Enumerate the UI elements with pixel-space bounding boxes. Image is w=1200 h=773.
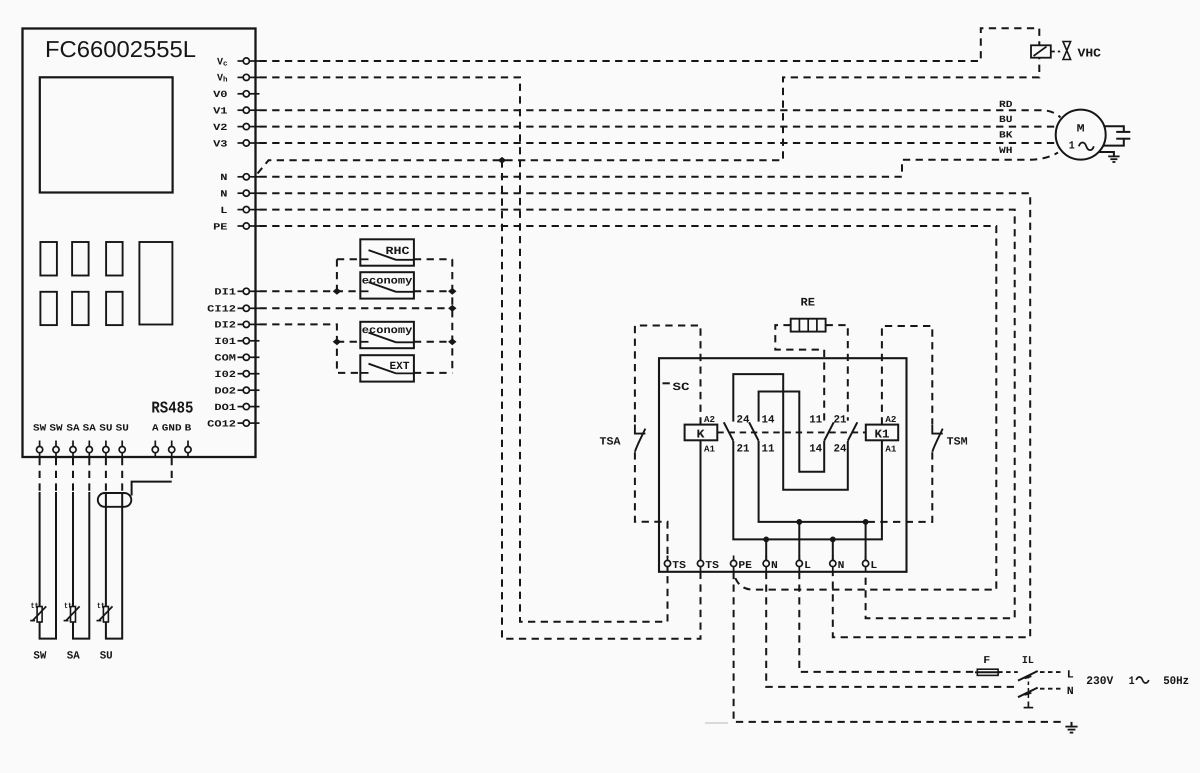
svg-text:TS: TS	[705, 560, 719, 572]
svg-text:N: N	[220, 172, 228, 183]
ground symbol (motor)	[1108, 155, 1119, 157]
display window	[40, 77, 173, 192]
button key 6 (bottom row)	[106, 292, 123, 325]
switch contact inside economy	[360, 341, 368, 343]
svg-text:I01: I01	[214, 336, 236, 347]
svg-text:24: 24	[737, 415, 750, 427]
wire EXT row right (dashed)	[414, 372, 452, 374]
wire DI2 row + left rail (dashed)	[260, 324, 361, 373]
svg-text:SU: SU	[100, 651, 113, 663]
svg-text:TS: TS	[672, 560, 686, 572]
switch box economy (y=272.2)	[360, 272, 414, 298]
svg-text:WH: WH	[999, 145, 1013, 156]
svg-text:L: L	[870, 560, 877, 572]
svg-text:PE: PE	[738, 560, 752, 572]
svg-text:SW: SW	[33, 651, 46, 663]
button key 2 (top row)	[72, 242, 89, 276]
wire V3 to motor BK (dashed)	[260, 142, 1058, 144]
SC enclosure box	[659, 358, 907, 572]
svg-text:RHC: RHC	[386, 246, 410, 258]
switch contact inside RHC	[360, 258, 368, 260]
svg-text:SW: SW	[49, 423, 63, 434]
svg-text:TSM: TSM	[947, 436, 968, 448]
svg-text:V0: V0	[213, 89, 228, 100]
thermostat switch TSA	[635, 425, 646, 434]
svg-text:L: L	[804, 560, 811, 572]
wire RHC row (dashed)	[337, 258, 360, 260]
svg-text:FC66002555L: FC66002555L	[45, 36, 196, 62]
terminal L (SC bottom, x=799.3)	[798, 556, 800, 561]
terminal PE (SC bottom, x=733.6)	[733, 556, 735, 561]
motor ground connection	[1099, 152, 1114, 156]
mechanical link K-K1 (dashed)	[717, 431, 866, 433]
svg-text:I02: I02	[214, 369, 236, 380]
wire: sensor lead 1 dashed below controller	[39, 458, 41, 492]
svg-text:VHC: VHC	[1078, 47, 1102, 61]
relay coil K	[685, 425, 718, 441]
wire: sensor lead 2 dashed below controller	[55, 458, 57, 492]
temperature sensor SW (thermistor)	[37, 607, 42, 623]
wire N branch to VHC bottom (dashed, via x=783)	[258, 58, 1040, 174]
wire: contact 21 down, bottom rail to K1 A1 (solid)	[733, 441, 882, 540]
svg-text:SA: SA	[67, 651, 80, 663]
junction dots on rails	[796, 519, 802, 525]
faint artifact line	[705, 722, 728, 724]
wire RE right lead to contact 21-top (dashed)	[826, 325, 848, 421]
svg-text:DI1: DI1	[214, 287, 236, 298]
wire: L2 drop	[865, 522, 867, 561]
wire GND shield link (solid elbow)	[132, 482, 172, 496]
svg-text:B: B	[185, 423, 192, 434]
svg-text:PE: PE	[213, 221, 228, 232]
wire fuse to IL pole L (dashed)	[998, 671, 1018, 673]
contact blades K (left leaning)	[724, 422, 734, 441]
temperature sensor SA (thermistor)	[71, 607, 76, 623]
wire: N1 drop	[765, 539, 767, 560]
svg-text:IL: IL	[1022, 655, 1034, 667]
ground symbol (mains)	[1071, 722, 1073, 727]
svg-text:14: 14	[762, 415, 775, 427]
motor M1 circle	[1056, 110, 1106, 160]
temperature sensor SU (thermistor)	[103, 607, 108, 623]
svg-text:1: 1	[1069, 141, 1075, 153]
wire: L1 drop	[798, 522, 800, 561]
wire IL to N input (dashed)	[1040, 688, 1062, 690]
button large key	[139, 242, 172, 325]
svg-text:economy: economy	[362, 325, 413, 337]
svg-text:21: 21	[834, 415, 847, 427]
wire CI12 row (dashed)	[260, 307, 453, 309]
wire: sensor lead 5 dashed below controller	[105, 458, 107, 492]
wire coil to valve symbol	[1051, 51, 1060, 53]
svg-text:A: A	[152, 423, 159, 434]
contact blades K1 (right leaning)	[824, 422, 834, 441]
svg-text:DI2: DI2	[214, 320, 236, 331]
junction node diamonds	[333, 288, 341, 295]
svg-text:SA: SA	[83, 423, 97, 434]
svg-text:SU: SU	[116, 423, 130, 434]
wire left rail upper segment (dashed)	[336, 259, 338, 291]
terminal TS (SC bottom, x=700.5)	[700, 556, 702, 561]
svg-text:V1: V1	[213, 106, 228, 117]
svg-text:A2: A2	[704, 415, 715, 425]
svg-text:COM: COM	[214, 353, 236, 364]
svg-text:V3: V3	[213, 138, 228, 149]
svg-text:A1: A1	[704, 444, 716, 454]
wire: K coil A1 down to TS2 terminal (solid)	[700, 440, 702, 560]
button key 5 (bottom row)	[72, 292, 89, 325]
switch box RHC (y=239.3)	[360, 239, 414, 265]
thermostat switch TSM	[932, 425, 943, 434]
svg-text:K: K	[697, 427, 706, 441]
svg-text:SC: SC	[673, 382, 691, 394]
wire: SW sensor pair leads	[39, 492, 41, 607]
svg-text:L: L	[220, 205, 228, 216]
wire: SA sensor pair leads	[72, 492, 74, 607]
wire N branch down to TS2 (dashed, x=502)	[502, 160, 701, 638]
wire V2 to motor BU (dashed)	[260, 126, 1057, 128]
terminal N (SC bottom, x=766.2)	[765, 556, 767, 561]
terminal TS (SC bottom, x=667.5)	[667, 556, 669, 561]
wire: N2 drop	[832, 539, 834, 560]
wire PE(SC) down to ground rail (dashed)	[734, 572, 1065, 722]
svg-text:N: N	[1067, 686, 1074, 698]
switch contact inside EXT	[360, 372, 368, 374]
svg-text:GND: GND	[162, 423, 182, 434]
wire: SU sensor pair leads	[105, 492, 107, 607]
svg-text:11: 11	[762, 444, 775, 456]
fuse F	[975, 671, 1000, 673]
wire L1(SC) to fuse F (dashed)	[799, 572, 977, 672]
button key 1 (top row)	[40, 242, 57, 276]
svg-text:tt: tt	[31, 602, 39, 611]
TSM loop lower: below switch to L rail	[866, 452, 933, 522]
svg-text:21: 21	[737, 444, 750, 456]
svg-text:230V: 230V	[1086, 675, 1113, 688]
valve symbol VHC (bowtie)	[1063, 42, 1071, 60]
node: junction diamond on N branch	[498, 157, 506, 164]
wire N (second) to SC terminal N2 (dashed)	[260, 193, 1031, 637]
svg-text:11: 11	[809, 415, 822, 427]
wire N (first) to motor WH with jog (dashed)	[260, 153, 1059, 177]
switch IL pole L blade	[1018, 671, 1038, 681]
switch IL pole N blade	[1018, 688, 1038, 698]
svg-text:A2: A2	[885, 415, 896, 425]
TSM loop (dashed): K1 A2 up, across, down to switch	[882, 326, 932, 425]
wire PE to SC terminal PE (dashed)	[260, 226, 997, 590]
wire Vc to VHC coil top (dashed)	[260, 28, 1040, 61]
solenoid coil VHC (rect with diagonal)	[1031, 45, 1051, 57]
wire: sensor lead 4 dashed below controller	[88, 458, 90, 492]
wire: contact 11 down, bottom rail upper (solid)	[759, 441, 866, 522]
svg-text:M: M	[1077, 124, 1085, 136]
svg-text:N: N	[838, 560, 845, 572]
button key 3 (top row)	[106, 242, 123, 276]
terminal L (SC bottom, x=865.6)	[865, 556, 867, 561]
wire GND to shield: dashed drop from GND terminal	[171, 458, 173, 480]
svg-text:N: N	[220, 189, 228, 200]
contact bridge 1: arch 24 + big U to contact 24(right)	[733, 374, 848, 490]
svg-text:DO2: DO2	[214, 386, 236, 397]
wire N1(SC) to IL pole N (dashed)	[766, 572, 1018, 687]
svg-text:N: N	[771, 560, 778, 572]
wire: sensor lead 3 dashed below controller	[72, 458, 74, 492]
svg-text:BU: BU	[999, 114, 1013, 125]
wire economy2 branch row (dashed)	[337, 341, 360, 343]
IL mechanical link	[1027, 675, 1029, 701]
svg-text:RD: RD	[999, 99, 1013, 110]
wire right rail (dashed)	[451, 259, 453, 373]
svg-text:SW: SW	[33, 423, 47, 434]
svg-text:economy: economy	[362, 275, 413, 287]
svg-text:50Hz: 50Hz	[1163, 675, 1189, 688]
svg-text:SU: SU	[99, 423, 113, 434]
wire RE left lead to contact 11-top (dashed)	[775, 325, 824, 421]
controller U1 FC66002555L outline	[23, 29, 256, 458]
switch box EXT (y=355.2)	[360, 355, 414, 381]
svg-text:L: L	[1067, 670, 1074, 682]
svg-text:14: 14	[809, 444, 822, 456]
wire DI1 row (dashed)	[260, 290, 361, 292]
svg-text:TSA: TSA	[600, 436, 621, 448]
svg-text:1: 1	[1129, 675, 1135, 688]
wire: sensor lead 6 dashed below controller	[121, 458, 123, 492]
terminal N (SC bottom, x=832.8)	[832, 556, 834, 561]
wire Vh to TS1 (dashed, down left rail x=520)	[260, 77, 668, 621]
svg-text:CO12: CO12	[207, 418, 236, 429]
wire IL to L input (dashed)	[1040, 671, 1062, 673]
svg-text:24: 24	[834, 444, 847, 456]
resistor RE	[791, 319, 826, 332]
switch box economy (y=321.8)	[360, 322, 414, 348]
svg-text:SA: SA	[66, 423, 80, 434]
svg-text:CI12: CI12	[207, 304, 236, 315]
relay coil K1	[866, 425, 898, 441]
svg-text:RE: RE	[801, 296, 816, 309]
wire L to SC terminal L2 (dashed)	[260, 210, 1015, 619]
wire V1 to motor RD (dashed)	[260, 110, 1061, 117]
svg-text:tt: tt	[97, 602, 105, 611]
svg-text:RS485: RS485	[151, 399, 193, 418]
svg-text:K1: K1	[875, 427, 890, 441]
svg-text:DO1: DO1	[214, 402, 236, 413]
switch contact inside economy	[360, 290, 368, 292]
shield loop (twisted pair marker) around SU pair	[98, 493, 132, 507]
contact bridge 2: arch 14 + inner U to contact 14(right)	[759, 392, 825, 472]
svg-text:F: F	[983, 655, 990, 667]
svg-text:tt: tt	[64, 602, 72, 611]
label SC	[663, 382, 670, 384]
TSA loop (dashed): K A2 up, across, down to switch	[635, 326, 701, 425]
svg-text:V2: V2	[213, 122, 228, 133]
svg-text:A1: A1	[885, 444, 897, 454]
button key 4 (bottom row)	[40, 292, 57, 325]
motor run capacitor	[1104, 126, 1124, 132]
svg-text:BK: BK	[999, 130, 1013, 141]
TSA loop lower: below switch to TS1	[635, 452, 668, 556]
